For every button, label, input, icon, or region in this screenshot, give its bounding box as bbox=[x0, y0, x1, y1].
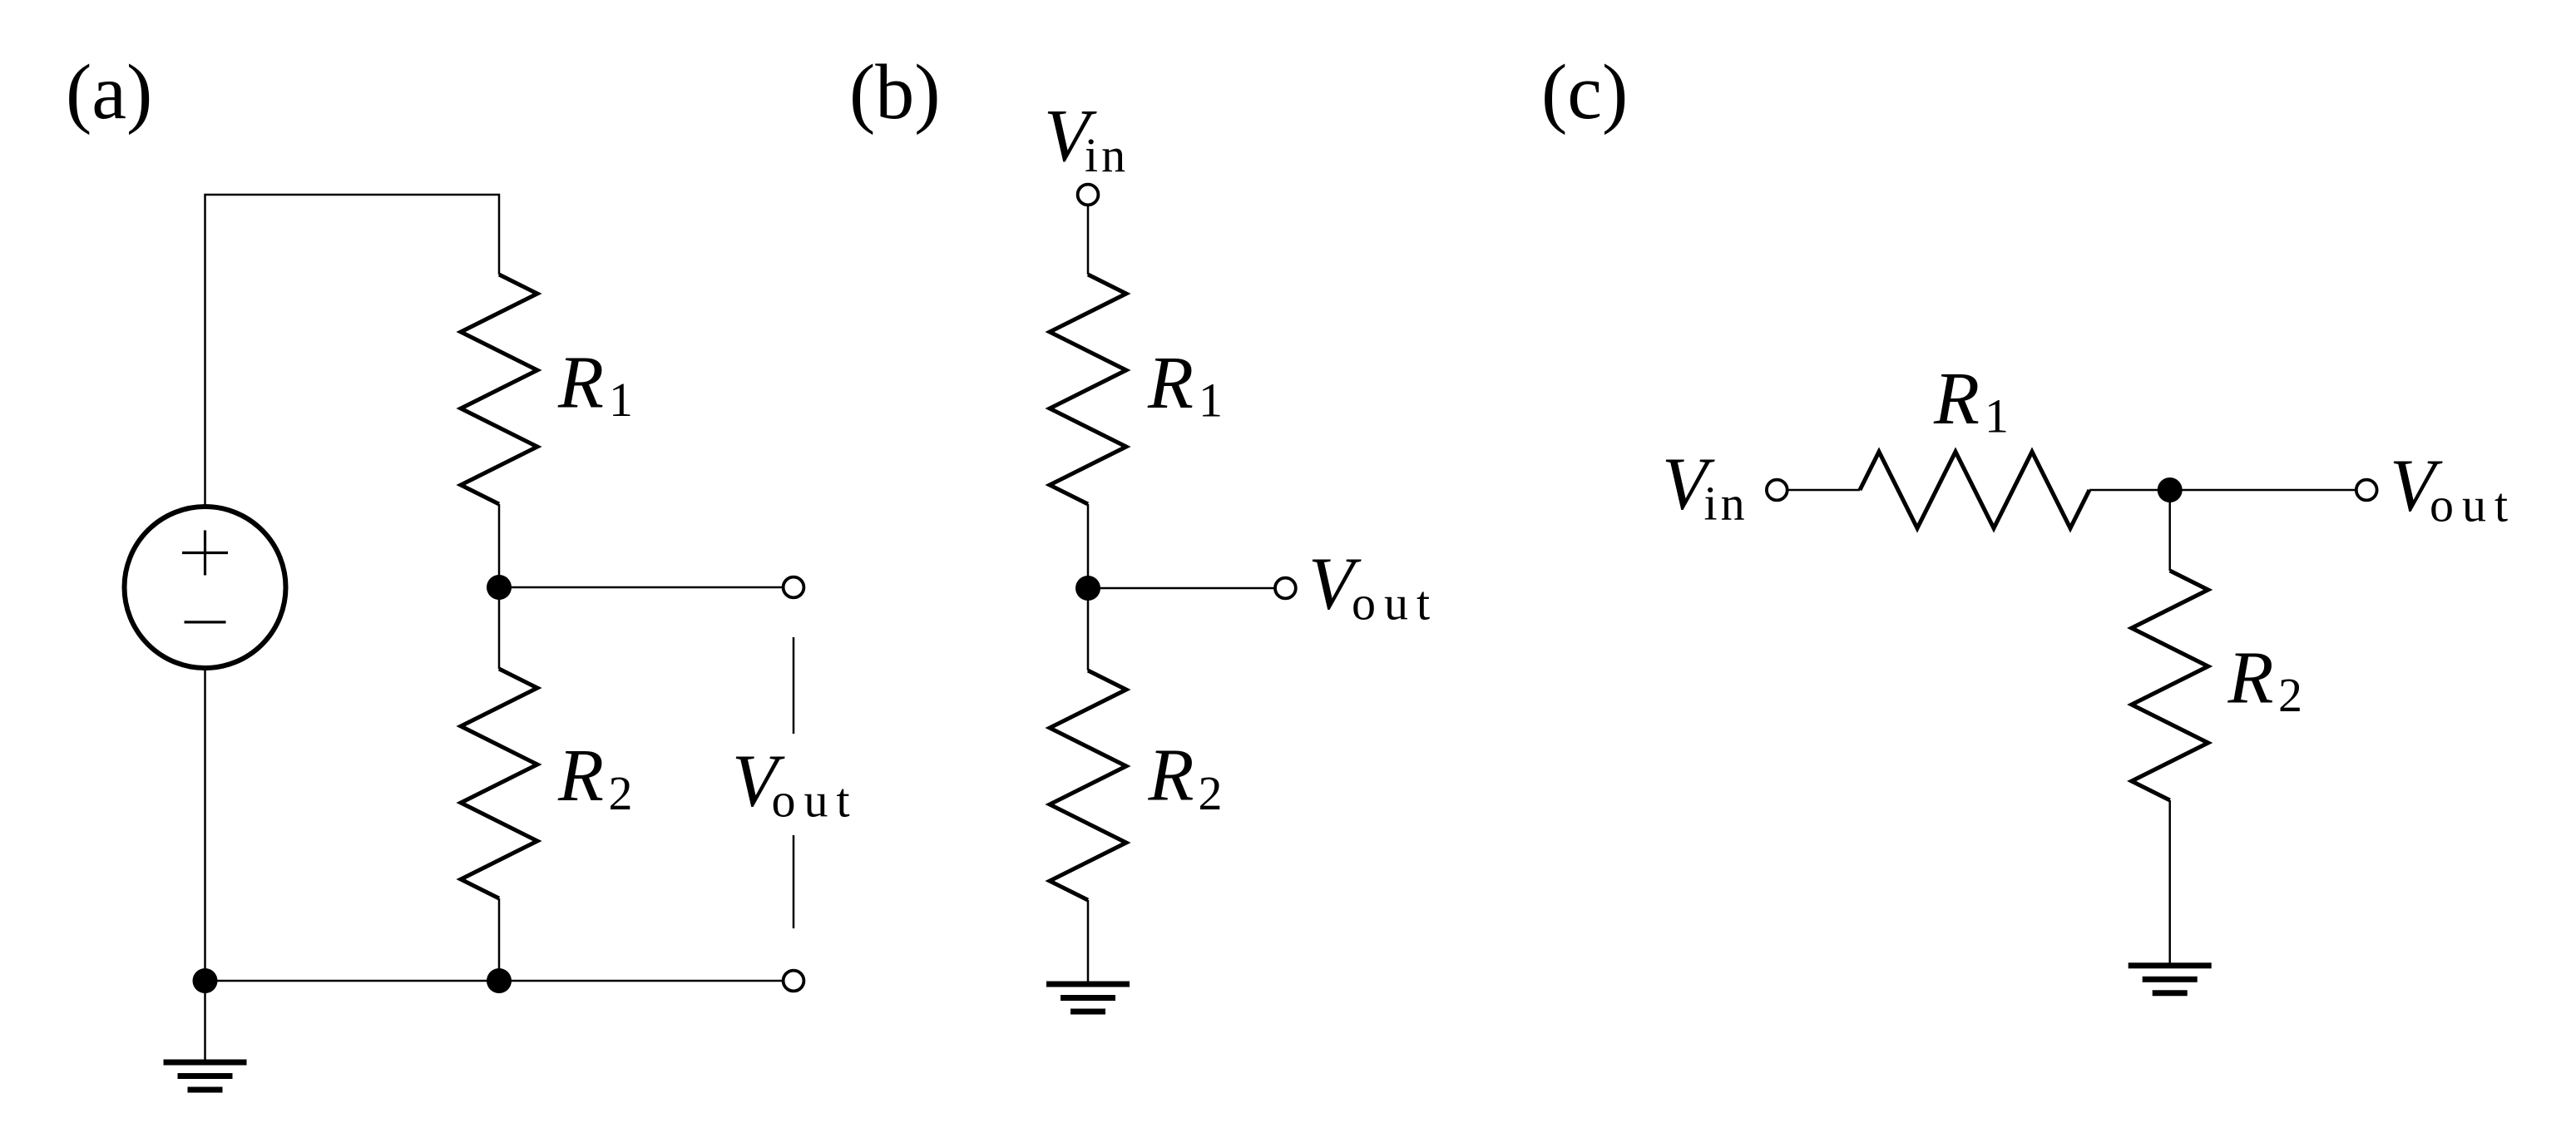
svg-text:(b): (b) bbox=[849, 49, 941, 136]
svg-text:R: R bbox=[1148, 735, 1194, 817]
svg-text:R: R bbox=[1933, 358, 1980, 440]
svg-text:R: R bbox=[557, 342, 604, 424]
svg-text:2: 2 bbox=[2278, 668, 2302, 722]
svg-text:R: R bbox=[557, 735, 604, 817]
svg-text:2: 2 bbox=[1199, 766, 1223, 820]
svg-text:R: R bbox=[2227, 637, 2274, 720]
svg-text:out: out bbox=[772, 773, 858, 827]
svg-text:(a): (a) bbox=[66, 49, 152, 136]
svg-text:1: 1 bbox=[1199, 374, 1223, 428]
svg-text:in: in bbox=[1085, 128, 1129, 182]
svg-text:1: 1 bbox=[1985, 389, 2009, 443]
svg-text:in: in bbox=[1704, 477, 1748, 531]
svg-text:out: out bbox=[2430, 477, 2516, 532]
svg-text:1: 1 bbox=[609, 373, 633, 427]
svg-text:out: out bbox=[1352, 576, 1438, 630]
svg-text:R: R bbox=[1147, 342, 1194, 424]
svg-text:2: 2 bbox=[609, 766, 633, 820]
svg-text:(c): (c) bbox=[1541, 49, 1628, 136]
